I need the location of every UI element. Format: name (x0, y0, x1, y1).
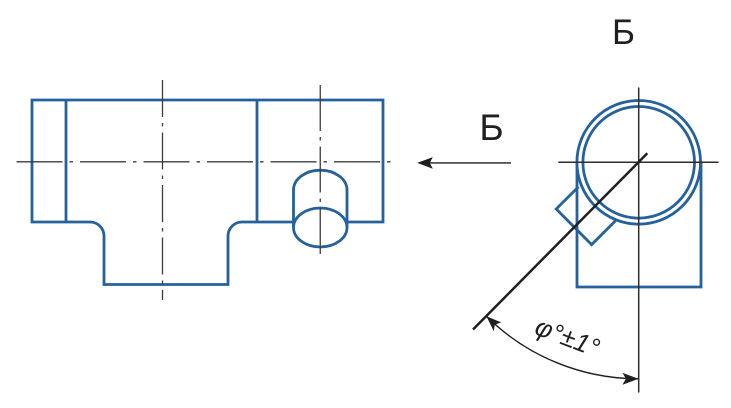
view direction arrow line (429, 162, 511, 164)
svg-text:Б: Б (479, 107, 503, 148)
left view: body outline with fillets (32, 100, 383, 285)
left view: vertical centerline (162, 80, 164, 300)
left view: horizontal centerline (17, 161, 393, 163)
right view: vertical centerline (638, 88, 640, 393)
right view: inner circle (583, 107, 695, 219)
right view: outer circle (577, 101, 701, 225)
angle dimension arrowhead left (486, 316, 501, 331)
left view: cylindrical boss side lines (294, 190, 348, 228)
angle dimension arc (486, 315, 639, 378)
left view: cylindrical boss bottom ellipse (294, 208, 348, 247)
right view: inclined boss axis line (473, 153, 647, 329)
right view: square boss (diamond, partially hidden by circle) (556, 187, 615, 245)
right view: horizontal centerline (558, 161, 718, 163)
left view: cylindrical boss silhouette (white fill hides body edge behind) (294, 170, 348, 247)
right view: body rectangle (577, 163, 701, 287)
angle dimension arrowhead right (623, 373, 639, 385)
svg-text:Б: Б (612, 13, 635, 52)
left view: boss axis centerline (319, 85, 321, 258)
left view: right section divider line (256, 100, 259, 222)
view direction arrowhead (417, 157, 433, 169)
left view: flange divider line (65, 100, 68, 222)
left view: cylindrical boss top cap arc (294, 170, 348, 190)
